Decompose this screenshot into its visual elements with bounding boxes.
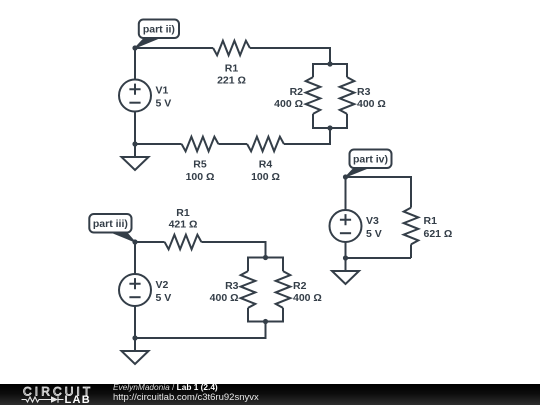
- svg-text:R1: R1: [225, 62, 239, 74]
- node: parallel pair top junction (part ii): [327, 61, 332, 66]
- voltage source V1 5 V (part ii): [119, 48, 171, 144]
- logo resistor-diode glyph: [22, 396, 64, 403]
- svg-text:5 V: 5 V: [156, 97, 172, 109]
- svg-text:400 Ω: 400 Ω: [357, 98, 386, 110]
- ground (part ii): [122, 144, 149, 170]
- svg-text:221 Ω: 221 Ω: [217, 75, 246, 87]
- svg-text:R1: R1: [176, 207, 190, 219]
- svg-text:400 Ω: 400 Ω: [210, 292, 239, 304]
- voltage source V3 5 V (part iv): [330, 177, 382, 258]
- svg-text:400 Ω: 400 Ω: [293, 292, 322, 304]
- svg-text:R2: R2: [290, 86, 304, 98]
- svg-text:400 Ω: 400 Ω: [274, 98, 303, 110]
- flag label "part iii)": [89, 214, 135, 242]
- wire from parallel pair down to bottom net (part iii): [135, 322, 266, 339]
- node: parallel pair top junction (part iii): [263, 255, 268, 260]
- svg-text:http://circuitlab.com/c3t6ru92: http://circuitlab.com/c3t6ru92snyvx: [113, 392, 259, 403]
- node: bottom-left junction at V1/ground (part ii): [132, 141, 137, 146]
- svg-text:part iv): part iv): [353, 154, 388, 166]
- ground (part iv): [332, 258, 359, 284]
- resistor R5 100 ohm (part ii): [182, 137, 219, 183]
- wire between R4 and R5 (part ii bottom net): [218, 143, 247, 145]
- svg-text:100 Ω: 100 Ω: [186, 171, 215, 183]
- resistor R3 400 ohm (part iii, left arm of parallel pair): [210, 258, 266, 322]
- svg-text:part iii): part iii): [93, 218, 128, 230]
- voltage source V2 5 V (part iii): [119, 242, 171, 338]
- resistor R1 221 ohm (part ii): [213, 41, 250, 87]
- resistor R2 400 ohm (part ii, left arm of parallel pair): [274, 64, 330, 128]
- resistor R3 400 ohm (part ii, right arm of parallel pair): [330, 64, 386, 128]
- svg-text:V3: V3: [366, 215, 379, 227]
- wire bottom-left to ground node (part ii): [135, 143, 182, 145]
- wire from parallel pair down to bottom net (part ii): [284, 128, 330, 144]
- svg-text:R1: R1: [424, 215, 438, 227]
- svg-text:V1: V1: [156, 85, 169, 97]
- wire bottom net (part iv): [346, 257, 412, 259]
- svg-text:R3: R3: [225, 280, 239, 292]
- svg-text:R3: R3: [357, 86, 371, 98]
- node: bottom junction (part iv): [343, 255, 348, 260]
- node: top junction at flag (part iii): [132, 239, 137, 244]
- svg-text:R2: R2: [293, 280, 307, 292]
- node: bottom junction at V2/ground (part iii): [132, 335, 137, 340]
- svg-text:V2: V2: [156, 279, 169, 291]
- resistor R2 400 ohm (part iii, right arm of parallel pair): [266, 258, 322, 322]
- node: parallel pair bottom junction (part iii): [263, 319, 268, 324]
- svg-text:621 Ω: 621 Ω: [424, 228, 453, 240]
- node: parallel pair bottom junction (part ii): [327, 125, 332, 130]
- svg-text:LAB: LAB: [65, 394, 92, 405]
- wire top net: node to R1 to right corner (part iii): [135, 242, 266, 258]
- svg-text:5 V: 5 V: [156, 292, 172, 304]
- node: top junction (part iv): [343, 174, 348, 179]
- wire top net from node right and down (part iv): [346, 177, 412, 208]
- resistor R1 421 ohm (part iii): [165, 207, 202, 249]
- resistor R1 621 ohm (part iv): [404, 208, 453, 258]
- svg-text:5 V: 5 V: [366, 228, 382, 240]
- svg-text:R5: R5: [193, 159, 207, 171]
- flag label "part iv)": [346, 150, 392, 178]
- svg-text:part ii): part ii): [143, 24, 175, 36]
- flag label "part ii)": [135, 20, 179, 49]
- wire top-left net: node to R1 to right corner (part ii circuit): [135, 48, 330, 64]
- ground (part iii): [122, 338, 149, 364]
- resistor R4 100 ohm (part ii): [247, 137, 284, 183]
- footer bar: [0, 384, 540, 405]
- svg-text:100 Ω: 100 Ω: [251, 171, 280, 183]
- svg-text:R4: R4: [259, 159, 273, 171]
- node: top-left junction (part ii): [132, 45, 137, 50]
- svg-text:421 Ω: 421 Ω: [169, 219, 198, 231]
